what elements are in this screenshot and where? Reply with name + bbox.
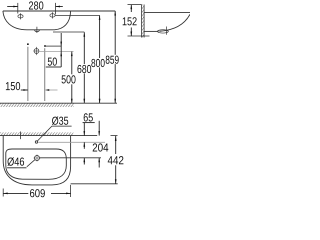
gray centerline at tap level (39, 50, 74, 52)
dimension 152: extension ticks (128, 4, 142, 6)
dimension 65: lower arrow to tap line (83, 142, 85, 149)
dimension 204: lower arrow to overflow line (right) (98, 158, 100, 168)
floor line (0, 102, 117, 104)
label diameter 35 (underlined) (52, 116, 68, 125)
plan view: overflow hole circle (35, 156, 40, 161)
dimension 50: value label + underline (48, 58, 57, 66)
side view: basin bottom edge (144, 30, 158, 32)
dimension 609: line and arrows (3, 192, 28, 194)
leader to tap hole label (37, 126, 52, 141)
dimension 150: value label (6, 82, 20, 90)
dimension 152: arrows (130, 5, 132, 12)
dimension 442: value label (108, 156, 124, 164)
plan view: wall hatching (0, 132, 73, 135)
dimension 50: leader column with two arrows (60, 33, 62, 67)
dimension 150: arrows (21, 89, 28, 91)
extension line from right hole (800 ref) (55, 14, 99, 16)
supply columns down to 150 dim (27, 47, 29, 101)
front view: drain symbol (35, 30, 40, 32)
gray centerline at tap hole level (plan) (38, 141, 105, 143)
front view: basin right rounded corner (55, 11, 71, 30)
dimension 800: value label (91, 59, 104, 67)
side view: drain outlet oval (158, 30, 169, 33)
front view: basin left rounded corner (3, 11, 27, 30)
side view: basin top edge (144, 11, 190, 13)
dimension 65: arrow to wall from underline (83, 123, 85, 136)
dimension 500: column with arrows (interrupted by label) (71, 52, 73, 75)
floor hatching (0, 104, 74, 107)
label diameter 46 (underlined) (7, 157, 24, 166)
dimension 859: column with arrows (interrupted by label) (114, 11, 116, 55)
dimension 65: underline (83, 122, 95, 124)
front view: right mounting hole (50, 12, 55, 18)
dimension 680: column with arrows (interrupted by label) (83, 32, 85, 64)
dimension 442: lower arrow (115, 165, 117, 184)
overflow extension line (40, 157, 101, 159)
dimension 65/204: lower arrow to overflow line (left) (83, 158, 85, 165)
dimension 280: extension lines (17, 3, 19, 14)
dimension 280: arrows (7, 6, 17, 8)
supply point right (dot) (44, 45, 46, 47)
tap hole symbol circle with cross (34, 49, 39, 54)
plan view: tap hole point (35, 141, 37, 143)
dimension 859: value label (106, 56, 119, 64)
dimension 609: extension lines (2, 189, 4, 197)
plan view: fixing position tick on wall (20, 132, 22, 140)
front edge extension line (71, 183, 118, 185)
dimension 280: value label (29, 1, 43, 9)
dimension 442: upper arrow (115, 136, 117, 154)
supply point left (dot) (27, 43, 29, 45)
front view: basin top edge + extension to vertical dimension lines (3, 10, 115, 12)
front view: basin bottom edge (27, 29, 55, 31)
dimension 800: column with arrows (interrupted by label) (99, 15, 101, 58)
plan view: outer basin outline (3, 136, 70, 185)
plan view: wall line right tick (111, 135, 118, 137)
plan view: wall line (0, 135, 97, 137)
side view: wall double line (141, 5, 143, 38)
dimension 204: upper arrow to wall (98, 121, 100, 136)
front view: left mounting hole (18, 13, 23, 19)
extension line basin underside (680 ref) (53, 31, 84, 33)
dimension 65: value label (84, 113, 93, 121)
leader to overflow label (27, 160, 35, 167)
dimension 609: value label (30, 189, 45, 197)
dimension 680: value label (77, 65, 91, 73)
side view: wall hatching (142, 5, 144, 38)
line supply dot to 50-dim corner (46, 45, 61, 47)
plan view: inner bowl outline (6, 149, 67, 179)
side view: basin front curve (160, 14, 191, 31)
dimension 152: value label (123, 17, 137, 25)
dimension 204: value label (93, 143, 109, 151)
dimension 500: value label (62, 75, 76, 83)
